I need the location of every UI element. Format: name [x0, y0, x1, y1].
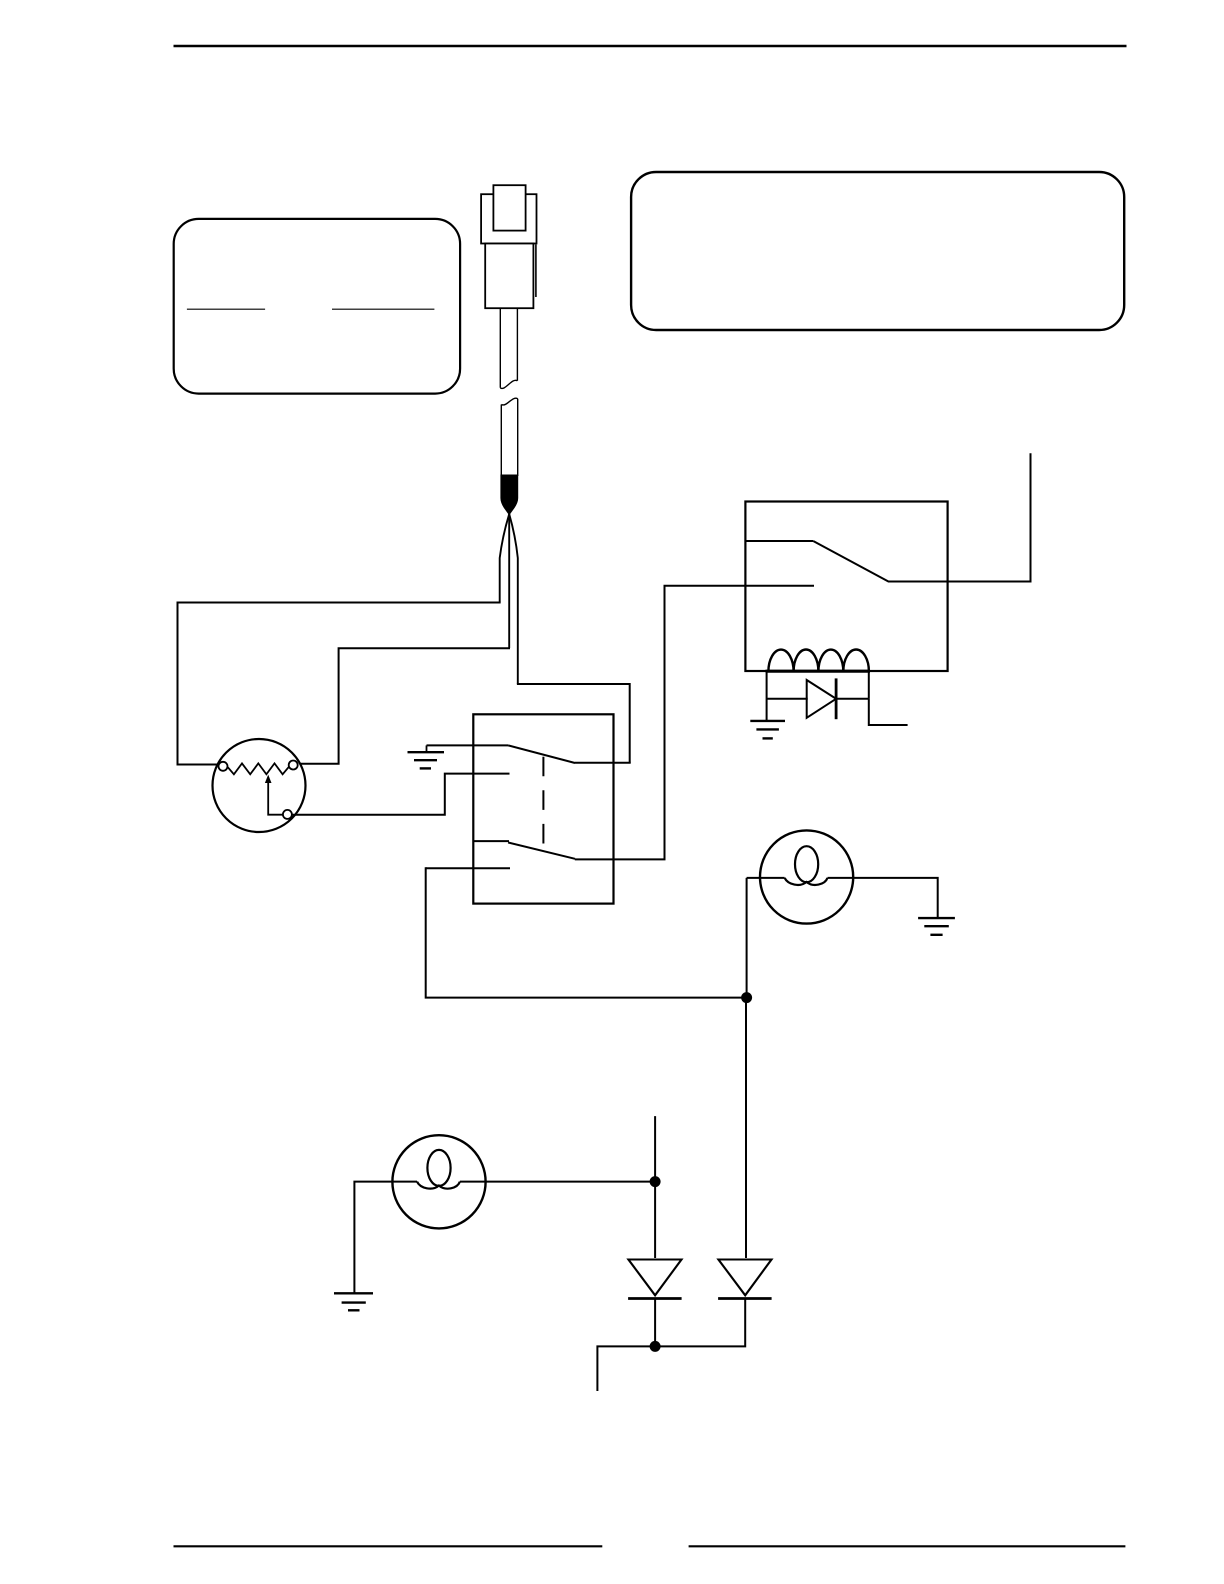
- wire: ground to S1 upper pivot: [427, 744, 509, 746]
- wire: coil left end down: [766, 671, 768, 721]
- spark plug cap P1 body: [485, 244, 533, 309]
- wire: coil right end down: [868, 671, 870, 699]
- wire: D2 cathode down to node C: [654, 1299, 656, 1347]
- ground at L1: [918, 917, 955, 919]
- plug wire upper segment (with break): [500, 309, 517, 389]
- K1 coil: [768, 649, 869, 671]
- S1 gang dashed link: [542, 757, 544, 850]
- K1 common lead: [745, 540, 813, 542]
- indicator lamp L2 body: [392, 1135, 485, 1228]
- wire: tip fan right lead: [509, 514, 518, 684]
- ground at S1 upper pole: [426, 745, 428, 752]
- ground at relay coil: [750, 720, 785, 722]
- wire: L1 left lead down to node A: [746, 878, 748, 998]
- wire: L1 right lead to ground: [828, 878, 938, 918]
- node C junction dot: [650, 1341, 661, 1352]
- wire: node C output tail: [597, 1346, 655, 1391]
- footer rule right: [689, 1545, 1126, 1547]
- wire: L2 left lead to ground: [354, 1182, 417, 1294]
- node A junction dot: [741, 992, 752, 1003]
- S1 upper switch arm: [508, 745, 575, 763]
- wire: left lead horizontal run to far left: [178, 603, 501, 765]
- S1 bottom contact lead: [426, 867, 510, 869]
- wire: right lead run to switch S1 upper throw: [517, 684, 630, 763]
- wire: middle lead run to sensor right terminal: [298, 648, 510, 763]
- D1 cathode bar: [835, 678, 838, 719]
- wire: stub above node B: [654, 1116, 656, 1182]
- relay K1 box: [745, 502, 947, 672]
- R1 terminal pin right: [289, 761, 298, 770]
- wire: L2 right lead to node B: [460, 1181, 655, 1183]
- K1 switch arm: [813, 541, 888, 582]
- sensor R1 (potentiometer) body circle: [213, 739, 306, 832]
- wire: R1 wiper to switch S1 lower pole: [292, 774, 510, 815]
- wire: S1 lower throw to relay K1 contact: [575, 586, 814, 860]
- wire: node A down to diode D3 anode: [745, 998, 747, 1258]
- R1 resistive element zigzag: [228, 763, 289, 774]
- R1 wiper arrow: [268, 780, 283, 815]
- L1 filament loop: [795, 846, 818, 882]
- footer rule left: [174, 1545, 603, 1547]
- plug wire stripped black tip: [500, 475, 518, 516]
- flyback diode D1: [807, 680, 836, 718]
- page top rule: [174, 45, 1127, 48]
- note box 1 (rounded, empty): [174, 219, 460, 394]
- L2 filament loop: [427, 1150, 450, 1186]
- S1 lower pivot lead: [473, 840, 509, 842]
- note box 2 (rounded, empty): [631, 172, 1124, 330]
- R1 terminal pin left: [219, 762, 228, 771]
- wire: K1 normally-open contact up to supply: [888, 453, 1031, 581]
- S1 lower switch arm: [508, 843, 575, 859]
- D3 cathode bar: [718, 1297, 772, 1300]
- wire: tip fan left lead: [500, 514, 510, 603]
- blank label line b in note box 1: [332, 308, 434, 310]
- plug wire lower segment: [501, 398, 517, 476]
- wire: node B down to diode D2 anode: [654, 1182, 656, 1258]
- switch S1 box: [473, 714, 613, 903]
- wire: D3 cathode down and over to node C: [655, 1299, 745, 1347]
- ground at L2: [334, 1292, 373, 1294]
- diode D3: [718, 1260, 771, 1296]
- wire: L1 left lead into lamp: [747, 877, 785, 879]
- blank label line a in note box 1: [187, 308, 265, 310]
- wire: S1 bottom contact down to node A: [426, 867, 742, 997]
- wire: flyback diode left lead: [767, 698, 808, 700]
- indicator lamp L1 body: [760, 830, 853, 923]
- wire: coil right to output stub: [869, 699, 908, 725]
- wire: S1 upper throw contact: [575, 762, 631, 764]
- diode D2: [628, 1260, 681, 1296]
- wire: tip fan middle lead: [508, 514, 510, 648]
- node B junction dot: [650, 1176, 661, 1187]
- D2 cathode bar: [628, 1297, 682, 1300]
- spark plug cap P1 body edge line: [535, 245, 537, 298]
- R1 terminal pin bottom (wiper): [283, 810, 292, 819]
- K1 coil baseline: [766, 670, 871, 673]
- wire: flyback diode right lead: [835, 698, 869, 700]
- spark plug cap P1 top terminal: [493, 185, 525, 230]
- spark plug cap P1 outer shell: [481, 194, 536, 243]
